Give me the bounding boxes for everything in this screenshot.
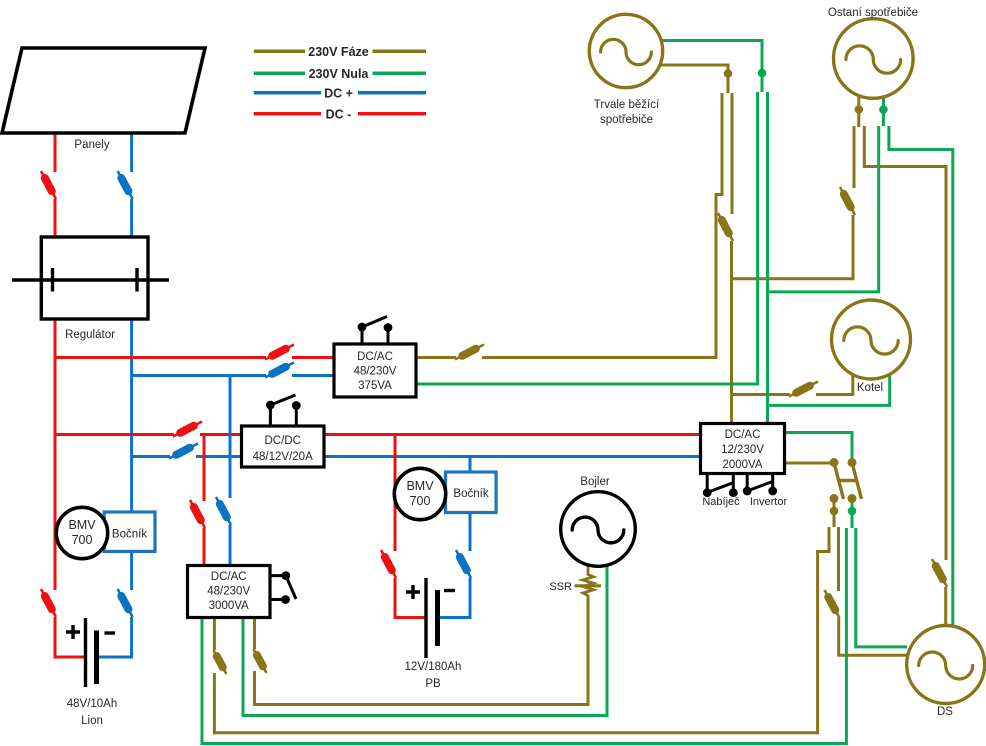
svg-text:Nabíječ: Nabíječ bbox=[702, 496, 740, 508]
wire 230V nula: changeover split to DS generator left bbox=[854, 528, 907, 648]
fuse-disconnect F15 on Ostaní inverter-side switch bbox=[840, 187, 855, 215]
svg-text:700: 700 bbox=[410, 494, 431, 508]
svg-text:Ostaní spotřebiče: Ostaní spotřebiče bbox=[828, 7, 918, 19]
wire DC- red: 48V bus branch to fuse on 12V rail bbox=[54, 433, 175, 436]
svg-text:DC/DC: DC/DC bbox=[264, 435, 300, 447]
wire DC+ blue: fuse to PB battery minus terminal bbox=[438, 578, 472, 619]
svg-text:BMV: BMV bbox=[68, 518, 96, 532]
switch Invertor under U3 bbox=[743, 474, 777, 496]
fuse-disconnect F20 on Bojler fáze output bbox=[254, 649, 267, 673]
wire DC+ blue: fuse to 3000VA box top bbox=[229, 525, 232, 567]
svg-text:Invertor: Invertor bbox=[750, 496, 788, 508]
wire 230V fáze: changeover to 3000VA inverter (bottom run) bbox=[214, 527, 830, 734]
fuse-disconnect F3 on red battery lead bbox=[41, 589, 56, 617]
wire DC+ blue: fuse to 375VA box bbox=[292, 374, 335, 377]
svg-text:375VA: 375VA bbox=[358, 380, 392, 392]
svg-text:SSR: SSR bbox=[549, 581, 572, 593]
wire DC- red: disconnect to Regulátor top bbox=[54, 199, 57, 237]
wire 230V fáze: 3000VA to SSR to Bojler bbox=[253, 616, 256, 649]
wire 230V nula: changeover common stub down to split bbox=[851, 500, 854, 528]
regulator internal bar symbol bbox=[12, 268, 169, 292]
wire DC- red: branch to DC/AC 375VA inverter bbox=[54, 356, 267, 359]
wire 230V nula: 3000VA bottom long run to changeover split bbox=[201, 528, 848, 745]
svg-text:700: 700 bbox=[72, 533, 93, 547]
wire 230V nula: 375VA output to riser up to Trvale bbox=[415, 92, 759, 386]
wire 230V nula: Ostaní lead down to junction bbox=[882, 97, 885, 126]
wire 230V nula: branch to Kotel bbox=[768, 371, 892, 407]
fuse-disconnect F19 on DS-changeover fáze link bbox=[825, 590, 840, 618]
wire 230V fáze: changeover common down to split bbox=[833, 499, 836, 528]
svg-text:Regulátor: Regulátor bbox=[65, 329, 115, 341]
svg-text:48V/10Ah: 48V/10Ah bbox=[67, 698, 118, 710]
fuse-disconnect F18 on 3000VA fáze output bbox=[213, 650, 226, 674]
svg-text:DC/AC: DC/AC bbox=[725, 429, 761, 441]
wire DC+ blue: panel right lead down to disconnect bbox=[130, 133, 133, 172]
battery monitor BMV 700 circle 2 bbox=[394, 468, 445, 519]
fuse-disconnect F1 on red panel lead bbox=[41, 171, 56, 199]
wire DC- red: drop to PB battery bbox=[394, 435, 397, 552]
wire DC- red: fuse to Lion battery plus terminal bbox=[54, 617, 86, 659]
svg-text:Bojler: Bojler bbox=[580, 476, 610, 488]
wire 230V fáze: fuse to Kotel bbox=[816, 372, 853, 396]
legend line DC + bbox=[254, 91, 426, 95]
shunt box Bočník 1 bbox=[104, 512, 155, 551]
SSR solid state relay element bbox=[583, 565, 594, 596]
junction dot: nula split under changeover bbox=[848, 507, 857, 516]
shunt box Bočník 2 bbox=[446, 472, 497, 513]
fuse-disconnect F2 on blue panel lead bbox=[118, 171, 133, 199]
legend line 230V Nula bbox=[254, 71, 426, 75]
wire DC- red: fuse to 3000VA box top bbox=[203, 528, 206, 567]
fuse-disconnect F6 on blue 375VA feed bbox=[265, 363, 294, 378]
wire 230V fáze: fuse to DS generator left bbox=[837, 618, 907, 657]
switch Nabíječ under U3 bbox=[703, 474, 738, 498]
fuse-disconnect F7 on red 12V rail bbox=[173, 422, 202, 437]
wire DC+ blue: drop through Bočník 2 to PB battery bbox=[469, 457, 472, 552]
wire 230V fáze: Trvale source lead to junction bbox=[660, 65, 730, 93]
wire 230V fáze: fuse to riser and up to Trvale switch left terminal bbox=[482, 93, 722, 358]
svg-text:DC/AC: DC/AC bbox=[357, 351, 393, 363]
wire 230V fáze: branch to Kotel fuse bbox=[732, 393, 791, 396]
wire 230V fáze: fuse down and across to SSR riser bbox=[253, 595, 590, 706]
AC load circle Trvale běžící spotřebiče bbox=[589, 14, 662, 87]
svg-text:DC/AC: DC/AC bbox=[211, 571, 247, 583]
svg-text:48/12V/20A: 48/12V/20A bbox=[253, 451, 313, 463]
svg-text:DC -: DC - bbox=[326, 108, 352, 122]
wire 230V fáze: bottom run up to fuse bbox=[213, 673, 216, 734]
wire 230V fáze: Ostaní switch left terminal down bbox=[853, 126, 856, 188]
fuse-disconnect F14 on Trvale grid-side switch bbox=[718, 213, 733, 241]
svg-text:2000VA: 2000VA bbox=[722, 459, 762, 471]
wire 230V fáze: switch to DC/AC 12/230V box top bbox=[730, 241, 733, 425]
fuse-disconnect F13 on 375VA fáze output bbox=[455, 345, 484, 360]
wire 230V nula: Ostaní right branch to grid riser down to DS bbox=[887, 126, 954, 627]
wire 230V fáze: Ostaní right branch to grid riser bbox=[863, 126, 948, 560]
junction dot: Trvale fáze bbox=[724, 69, 733, 78]
inverter-charger U3 DC/AC 12/230V 2000VA box bbox=[701, 424, 785, 474]
svg-text:BMV: BMV bbox=[406, 479, 434, 493]
fuse-disconnect F12 on blue PB lead bbox=[456, 550, 471, 578]
solar panel Panely bbox=[2, 48, 205, 133]
svg-text:3000VA: 3000VA bbox=[209, 600, 249, 612]
svg-text:Kotel: Kotel bbox=[857, 382, 883, 394]
fuse-disconnect F8 on blue 12V rail bbox=[169, 444, 198, 459]
svg-text:DS: DS bbox=[937, 706, 953, 718]
svg-text:12/230V: 12/230V bbox=[721, 444, 764, 456]
wire DC- red: rail through DC/DC box to DC/AC 12/230V box bbox=[200, 433, 701, 436]
svg-text:230V Fáze: 230V Fáze bbox=[308, 45, 369, 59]
svg-text:48/230V: 48/230V bbox=[354, 366, 397, 378]
changeover switch: blades and crossbar bbox=[834, 463, 862, 500]
inverter U1 DC/AC 375VA box bbox=[334, 344, 416, 397]
AC load circle Bojler bbox=[561, 492, 636, 567]
wire DC+ blue: 48V bus branch to fuse on 12V rail bbox=[132, 455, 170, 458]
wire 230V fáze: 375VA output to fuse bbox=[415, 356, 456, 359]
wire DC- red: panel left lead down to disconnect bbox=[54, 133, 57, 172]
wire DC- red: main bus from Regulátor down to fuse bbox=[54, 319, 57, 590]
AC load circle Ostaní spotřebiče bbox=[834, 19, 914, 99]
changeover switch: top terminal dots bbox=[830, 458, 839, 467]
fuse-disconnect F11 on red PB lead bbox=[381, 550, 396, 578]
wire 230V fáze: Trvale switch right terminal down bbox=[731, 93, 734, 214]
svg-text:Trvale běžící: Trvale běžící bbox=[594, 99, 660, 111]
plus sign at Lion battery bbox=[66, 625, 80, 639]
battery monitor BMV 700 circle 1 bbox=[56, 507, 107, 558]
minus sign at PB battery bbox=[444, 589, 455, 592]
svg-text:DC +: DC + bbox=[324, 87, 353, 101]
wire DC- red: fuse to PB battery plus terminal bbox=[394, 578, 427, 619]
junction dot: Ostaní nula bbox=[879, 105, 888, 114]
wire 230V fáze: fuse to DS generator top bbox=[944, 587, 947, 627]
junction dot: Trvale nula bbox=[758, 69, 767, 78]
changeover switch: bottom terminal dots bbox=[830, 494, 839, 503]
battery 12V/180Ah PB plates bbox=[424, 578, 427, 658]
wire 230V fáze: Ostaní switch down and across to inverter riser bbox=[730, 215, 855, 279]
switch on right of U4 bbox=[270, 571, 296, 604]
wire DC- red: fuse to 375VA box bbox=[292, 356, 335, 359]
wire 230V fáze: DC/AC 12/230V output to changeover top bbox=[784, 462, 834, 465]
svg-text:PB: PB bbox=[425, 678, 441, 690]
svg-text:48/230V: 48/230V bbox=[207, 586, 250, 598]
legend line 230V Fáze bbox=[254, 50, 426, 54]
wire DC+ blue: rail through DC/DC box to DC/AC 12/230V box bbox=[196, 455, 701, 458]
wire 230V fáze: fuse to 3000VA box bottom bbox=[213, 616, 216, 650]
battery 48V/10Ah Lion plates bbox=[84, 618, 87, 687]
wire 230V nula: riser to DC/AC 12/230V box top bbox=[766, 92, 769, 425]
wire DC+ blue: branch to DC/AC 375VA inverter bbox=[132, 374, 266, 377]
wire 230V fáze: Ostaní source lead to junction bbox=[857, 97, 860, 127]
fuse-disconnect F10 on blue 3000VA feed bbox=[216, 497, 231, 525]
inverter U4 DC/AC 48/230V 3000VA box bbox=[188, 566, 271, 618]
wire 230V nula: Trvale lead across and down to junction bbox=[662, 39, 764, 92]
switch on top of U1 bbox=[358, 317, 393, 345]
fuse-disconnect F17 on Kotel feed bbox=[789, 382, 818, 397]
wire 230V fáze: changeover to DS feed down bbox=[837, 527, 840, 591]
fuse-disconnect F5 on red 375VA feed bbox=[265, 345, 294, 360]
AC load circle Kotel bbox=[832, 300, 911, 379]
svg-text:spotřebiče: spotřebiče bbox=[600, 114, 653, 126]
switch on top of U2 bbox=[266, 395, 301, 426]
fuse-disconnect F16 on DS fáze lead bbox=[932, 559, 947, 587]
junction dot: fáze split under changeover bbox=[830, 507, 839, 516]
AC generator circle DS bbox=[907, 626, 985, 704]
wire 230V nula: DC/AC 12/230V output right and down to changeover bbox=[784, 431, 854, 462]
wire DC- red: drop to DC/AC 3000VA inverter bbox=[203, 435, 206, 502]
svg-text:Bočník: Bočník bbox=[453, 488, 488, 500]
junction dot: Ostaní fáze bbox=[855, 105, 864, 114]
svg-text:Bočník: Bočník bbox=[112, 529, 147, 541]
svg-text:Panely: Panely bbox=[74, 139, 109, 151]
wire 230V nula: Bojler to 3000VA box bbox=[243, 565, 609, 717]
fuse-disconnect F4 on blue battery lead bbox=[118, 589, 133, 617]
plus sign at PB battery bbox=[406, 585, 420, 599]
wire DC+ blue: drop from 48V+ bus to DC/AC 3000VA inverter bbox=[229, 376, 232, 499]
converter U2 DC/DC 48/12V box bbox=[242, 426, 325, 467]
fuse-disconnect F9 on red 3000VA feed bbox=[190, 500, 205, 528]
wire DC+ blue: fuse to Lion battery minus terminal bbox=[97, 617, 133, 659]
regulator box Regulátor bbox=[41, 237, 148, 319]
legend line DC - bbox=[254, 112, 426, 116]
minus sign at Lion battery bbox=[105, 631, 116, 634]
wire DC+ blue: Regulátor bottom down through Bočník to fuse bbox=[130, 319, 133, 590]
svg-text:230V Nula: 230V Nula bbox=[309, 67, 370, 81]
wire DC+ blue: disconnect to Regulátor top bbox=[130, 199, 133, 237]
wire 230V nula: branch across to Ostaní riser bbox=[768, 126, 881, 293]
svg-text:Lion: Lion bbox=[81, 715, 103, 727]
svg-text:12V/180Ah: 12V/180Ah bbox=[405, 661, 462, 673]
